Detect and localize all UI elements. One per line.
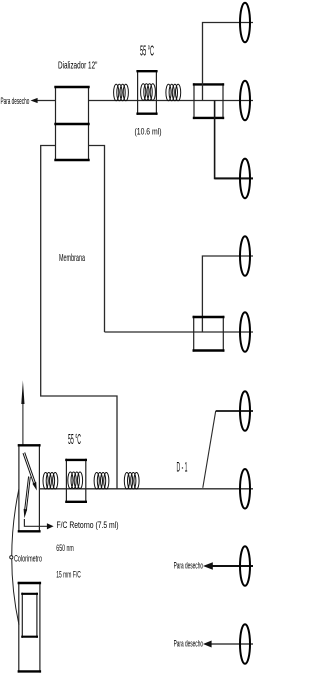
injection valve V1 bbox=[193, 83, 224, 119]
svg-text:F/C Retorno (7.5 ml): F/C Retorno (7.5 ml) bbox=[57, 520, 119, 531]
svg-text:55 °C: 55 °C bbox=[140, 43, 154, 60]
pump tube P4 bbox=[240, 236, 250, 276]
wire: diagonal to pump channel 6 bbox=[203, 411, 216, 488]
wire: waste channel 9 (arrow) bbox=[211, 643, 253, 645]
pump tube P3 bbox=[240, 159, 250, 199]
colorimeter inner window bbox=[21, 593, 38, 638]
svg-text:Para desecho: Para desecho bbox=[1, 96, 30, 106]
wire: pump channel 1 to valve V1 bbox=[203, 23, 254, 101]
wire: main carrier line y=100.5 bbox=[33, 100, 56, 102]
coil 2 (before valve V1) bbox=[166, 84, 181, 101]
coil 1 (after dialyzer) bbox=[114, 84, 129, 101]
svg-text:Membrana: Membrana bbox=[59, 253, 85, 264]
svg-text:55 °C: 55 °C bbox=[68, 431, 81, 448]
arrow to waste (top left) bbox=[31, 98, 38, 103]
node marker circle bbox=[10, 556, 13, 559]
colorimeter / recorder box bbox=[18, 582, 41, 673]
wire: flow cell return line bbox=[24, 519, 47, 526]
coil inside heated box 2 bbox=[68, 472, 83, 489]
pump tube P9 bbox=[240, 624, 250, 664]
pump tube P1 bbox=[240, 3, 250, 43]
svg-text:D - 1: D - 1 bbox=[177, 460, 188, 475]
heated bath box 1 bbox=[136, 70, 157, 115]
injection valve V2 bbox=[193, 316, 225, 352]
pump tube P7 bbox=[240, 469, 250, 509]
wire: dialyzer acceptor right leg bbox=[89, 146, 105, 333]
heated bath box 2 bbox=[65, 459, 87, 503]
flow cell light path arrow 1 (diagonal) bbox=[23, 452, 37, 490]
pump tube P8 bbox=[240, 546, 250, 586]
svg-text:Dializador 12": Dializador 12" bbox=[58, 61, 98, 72]
pump tube P6 bbox=[240, 391, 250, 431]
dialyzer D (two-cell box) bbox=[54, 86, 89, 161]
flow cell F/C box bbox=[18, 444, 41, 532]
coil inside heated box 1 bbox=[141, 84, 156, 101]
svg-text:650 nm: 650 nm bbox=[56, 543, 74, 553]
wire: pump channel 6 line (thick) bbox=[216, 410, 253, 412]
detector output arrow (up) bbox=[22, 402, 24, 445]
svg-text:Para desecho: Para desecho bbox=[174, 561, 203, 571]
flow cell light path arrow 2 (down) bbox=[24, 476, 31, 518]
arrow F/C retorno bbox=[47, 523, 54, 529]
coil 5 bbox=[94, 473, 109, 490]
svg-text:15 mm F/C: 15 mm F/C bbox=[56, 570, 81, 580]
wire: waste channel 8 (thick arrow) bbox=[212, 565, 253, 567]
wire: lower main line y=488.8 bbox=[39, 488, 253, 490]
coil 4 (after flow cell) bbox=[43, 473, 58, 490]
curve: flow cell to colorimeter bbox=[12, 489, 19, 625]
wire: dialyzer acceptor left leg bbox=[41, 146, 117, 489]
wire: valve V1 to pump channel 3 (thick) bbox=[215, 101, 253, 179]
svg-text:Colorimetro: Colorimetro bbox=[14, 554, 42, 564]
svg-text:(10.6 ml): (10.6 ml) bbox=[135, 126, 162, 137]
svg-text:Para desecho: Para desecho bbox=[174, 639, 203, 649]
pump tube P2 bbox=[240, 81, 250, 121]
pump tube P5 bbox=[240, 312, 250, 352]
wire: pump channel 4 to valve V2 bbox=[202, 256, 253, 332]
wire: reagent line through valve V2 y=332 bbox=[105, 331, 254, 333]
coil 6 bbox=[124, 473, 139, 490]
